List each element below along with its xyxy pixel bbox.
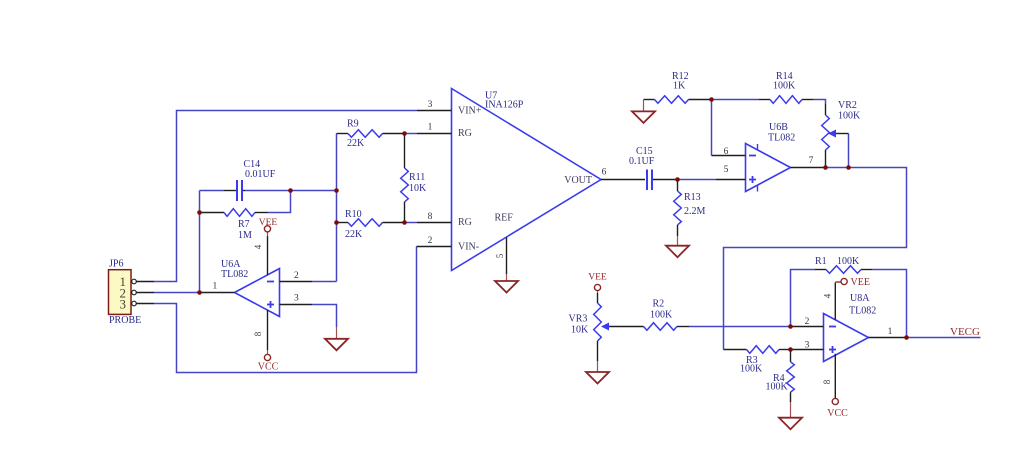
wire C15 to U6B pin5 [678,179,717,181]
svg-text:R11: R11 [409,172,425,183]
wire C14 right to bus [245,190,337,192]
ground below U6A pin3 [325,327,348,350]
svg-text:4: 4 [253,244,263,249]
svg-text:0.1UF: 0.1UF [629,156,655,167]
JP6 pin 3 lead [136,303,154,305]
svg-text:JP6: JP6 [109,259,123,270]
JP6 pin 2 lead [136,292,154,294]
junction R7 right to C14 [288,188,293,193]
svg-text:R7: R7 [238,219,250,230]
capacitor C14 [224,180,245,201]
wire R7 right to C14 node [268,191,291,213]
svg-text:TL082: TL082 [221,269,248,280]
svg-text:100K: 100K [766,382,789,393]
svg-text:R1: R1 [815,256,827,267]
svg-text:PROBE: PROBE [109,315,141,326]
svg-text:INA126P: INA126P [485,100,524,111]
svg-text:VEE: VEE [851,277,870,288]
U8A pin 8 lead [834,354,836,398]
resistor R3 [724,346,791,354]
power VEE above U6A [267,232,269,236]
svg-text:2.2M: 2.2M [684,206,706,217]
power VEE at U8A [835,281,841,283]
junction R10 left bus [334,220,339,225]
junction C15/R13 [675,177,680,182]
svg-text:2: 2 [294,271,299,281]
svg-text:100K: 100K [837,256,860,267]
wire VR2 wiper down [848,134,850,168]
ground below VR3 [586,361,609,384]
svg-text:22K: 22K [347,138,365,149]
junction R9/R11 top [402,131,407,136]
wire R1 right down to output [872,270,907,338]
U6B pin 7 lead (output) [791,167,826,169]
svg-text:100K: 100K [838,111,861,122]
resistor R13 [674,180,682,237]
U6A pin 8 lead [267,310,269,350]
U6B pin 6 lead [712,155,746,157]
U7 pin 5 lead (REF) [506,237,508,274]
svg-text:3: 3 [428,100,433,110]
svg-text:TL082: TL082 [849,306,876,317]
resistor R11 [401,134,409,223]
U7 pin 6 lead (VOUT) [601,179,645,181]
op-amp U8A [824,314,869,362]
svg-text:RG: RG [458,217,472,228]
instrumentation amp U7 [452,89,602,271]
svg-text:100K: 100K [773,81,796,92]
wire U6A pin2 to bus [312,281,337,283]
U7 pin 8 lead [417,222,452,224]
op-amp U6B [746,144,791,192]
svg-text:22K: 22K [345,229,363,240]
svg-text:1K: 1K [673,81,686,92]
wire bus R9/C14/R10 to U6A pin2 [336,134,338,282]
svg-text:10K: 10K [409,183,427,194]
junction R10/R11 bottom [402,220,407,225]
power VCC below U6A [267,350,269,354]
junction R1/output [904,335,909,340]
wire node A up to C14/R7 left [199,191,201,293]
resistor R4 [787,350,795,403]
wire U6A pin3 to ground [312,305,337,328]
wire R2 to U8A pin2 node [689,326,791,328]
svg-text:6: 6 [724,147,729,157]
svg-text:0.01UF: 0.01UF [245,169,276,180]
junction R2/R1/pin2 [788,324,793,329]
svg-text:8: 8 [822,379,832,384]
svg-text:100K: 100K [740,364,763,375]
U8A pin 4 lead [834,283,836,320]
JP6 pin 1 lead [136,281,154,283]
resistor R14 [759,96,813,104]
wire R10 node to U7 RG2 [405,222,418,224]
svg-text:8: 8 [428,212,433,222]
svg-text:VECG: VECG [950,326,980,338]
svg-text:VEE: VEE [588,273,607,283]
svg-text:VOUT: VOUT [564,175,592,186]
potentiometer VR2 [822,104,849,168]
wire U6B output loop to R3 [724,168,907,350]
svg-text:1M: 1M [238,230,252,241]
power VEE above VR3 [597,290,599,293]
wire R12 node to R14 [712,99,760,101]
ground at R12 left [632,100,655,123]
junction R7/C14 left [197,210,202,215]
svg-text:VEE: VEE [259,218,278,228]
wire JP6 pin2 to node A [154,292,200,294]
wire node up to R1 left [791,270,816,327]
junction R3/R4/pin3 [788,347,793,352]
U8A pin 1 lead (output) [869,337,907,339]
junction VR2 bottom [823,165,828,170]
U7 pin 3 lead [417,110,452,112]
svg-text:VCC: VCC [827,408,848,419]
U6A pin 4 lead [267,236,269,275]
junction C14 to bus [334,188,339,193]
svg-text:VR3: VR3 [569,314,588,325]
potentiometer VR3 [594,293,644,361]
svg-text:1: 1 [213,282,218,292]
svg-text:2: 2 [805,317,810,327]
junction JP6 pin2/U6A out [197,290,202,295]
ground below R13 [666,236,689,257]
resistor R9 [337,130,405,138]
svg-text:R10: R10 [345,209,362,220]
wire R14 right to VR2 top [813,100,826,105]
svg-text:3: 3 [294,294,299,304]
wire R9 node to U7 RG1 [405,133,418,135]
ground below R4 [779,402,802,429]
wire C14 left [200,190,225,192]
svg-text:8: 8 [253,331,263,336]
svg-text:7: 7 [809,156,814,166]
svg-text:R2: R2 [653,299,665,310]
U6A pin 1 lead (output) [200,292,235,294]
junction VR2 wiper [846,165,851,170]
power VCC circle U8A [832,398,838,404]
U6A pin 2 lead [280,281,313,283]
svg-text:U6B: U6B [769,122,788,133]
junction R12/R14/pin6 [709,97,714,102]
resistor R2 [644,323,690,331]
svg-text:5: 5 [724,165,729,175]
svg-text:100K: 100K [650,310,673,321]
U7 pin 1 lead [417,133,452,135]
svg-text:5: 5 [495,253,505,258]
U8A pin 3 lead [791,349,824,351]
svg-text:VIN-: VIN- [458,242,479,253]
svg-text:1: 1 [888,327,893,337]
svg-text:2: 2 [428,236,433,246]
resistor R12 [644,96,712,104]
U6A pin 3 lead [280,304,313,306]
svg-text:3: 3 [805,341,810,351]
svg-text:VCC: VCC [258,362,279,373]
svg-text:RG: RG [458,128,472,139]
svg-text:R9: R9 [347,119,359,130]
U6B pin 5 lead [716,179,746,181]
wire JP6 pin1 to U7 VIN+ [154,111,417,282]
resistor R1 [815,266,872,274]
svg-text:U8A: U8A [850,293,870,304]
connector JP6 [109,270,132,315]
U8A pin 2 lead [791,326,824,328]
wire U8A output to VECG [907,337,981,339]
wire JP6 pin3 to U7 VIN- [154,247,417,373]
svg-text:TL082: TL082 [768,133,795,144]
svg-text:4: 4 [823,293,833,298]
capacitor C15 [647,170,678,191]
svg-text:6: 6 [602,168,607,178]
op-amp U6A [235,269,280,317]
wire node down to U6B pin6 [711,100,713,156]
svg-text:REF: REF [495,213,514,224]
svg-text:10K: 10K [571,325,589,336]
resistor R10 [337,219,405,227]
svg-text:3: 3 [120,297,127,312]
svg-text:R13: R13 [684,192,701,203]
svg-text:1: 1 [428,123,433,133]
U7 pin 2 lead [417,246,452,248]
resistor R7 [200,209,269,217]
svg-text:VIN+: VIN+ [458,106,482,117]
ground below U7 REF [495,274,518,293]
svg-text:VR2: VR2 [838,100,857,111]
